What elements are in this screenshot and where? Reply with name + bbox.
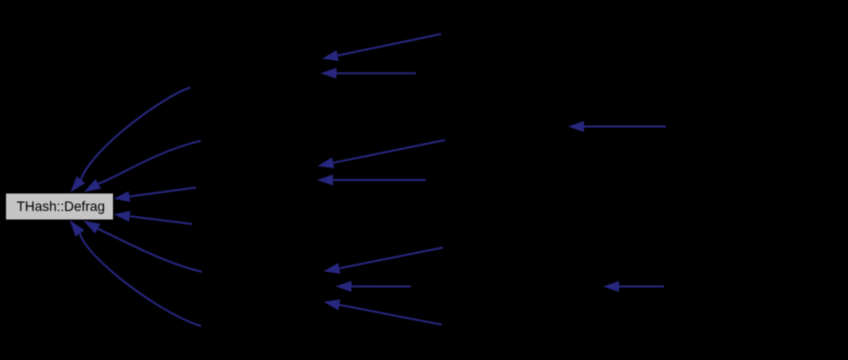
wire edge caller-5 to THash::Defrag (lower curve)	[83, 221, 202, 272]
wire edge 2nd-level caller to hidden node (horizontal, top)	[321, 68, 417, 79]
wire edge caller-2 to THash::Defrag (upper curve)	[84, 141, 201, 192]
wire edge 2nd-level caller to hidden node (slanted, lower)	[324, 248, 443, 274]
wire edge 2nd-level caller to hidden node (slanted, middle)	[318, 140, 446, 168]
node box THash::Defrag	[6, 194, 113, 220]
wire edge caller-4 to THash::Defrag (lower straight arrow)	[114, 211, 192, 224]
wire edge caller-6 to THash::Defrag (big bottom curve)	[70, 220, 201, 326]
wire edge 3rd-level caller to hidden node (horizontal, upper right)	[568, 121, 666, 132]
wire edge caller-1 to THash::Defrag (big top curve)	[71, 88, 191, 193]
wire edge 3rd-level caller to hidden node (horizontal, lower right)	[603, 281, 664, 292]
wire edge 2nd-level caller to hidden node (horizontal, lower)	[336, 281, 412, 292]
svg-text:THash::Defrag: THash::Defrag	[17, 199, 105, 214]
wire edge 2nd-level caller to hidden node (horizontal, middle)	[317, 175, 426, 186]
wire edge caller-3 to THash::Defrag (upper straight arrow)	[114, 188, 196, 203]
wire edge 2nd-level caller to hidden node (slanted, bottom)	[324, 299, 442, 324]
wire edge 2nd-level caller to hidden node (slanted, top)	[322, 34, 441, 61]
